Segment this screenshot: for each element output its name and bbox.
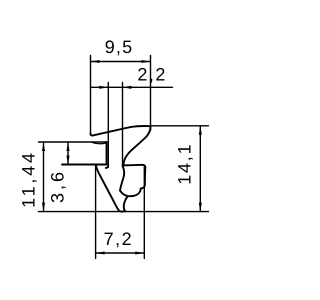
svg-text:2,2: 2,2	[137, 65, 167, 85]
wire ext right 2,2 / stem right	[122, 83, 124, 167]
arrow 11,44 bottom	[42, 203, 45, 212]
profile top edge with beak	[91, 126, 151, 136]
wire bottom shared ext	[39, 211, 209, 213]
svg-text:11,44: 11,44	[19, 150, 39, 208]
arrows	[42, 60, 202, 255]
svg-text:9,5: 9,5	[105, 37, 134, 57]
arrow 9,5 left	[91, 60, 100, 63]
arrow 14,1 top	[199, 126, 202, 135]
profile barb cross stroke	[120, 188, 141, 196]
profile right block edge	[141, 168, 146, 189]
profile blade left diagonal	[96, 165, 119, 211]
profile flange right+bottom	[62, 142, 107, 165]
wire dim 3,6 line	[67, 142, 69, 165]
arrow 9,5 right	[142, 60, 151, 63]
profile notch top	[123, 165, 145, 168]
profile blade right edge	[120, 166, 124, 190]
wire ext top 14,1	[151, 125, 209, 127]
wire ext left 9,5	[90, 56, 92, 136]
wire dim 11,44 line	[43, 142, 45, 212]
wire dim 9,5 line	[91, 61, 151, 63]
arrow 2,2 left outside	[99, 86, 108, 89]
arrow 11,44 top	[42, 142, 45, 151]
profile barb lower leg	[124, 197, 128, 212]
arrow 3,6 top	[66, 142, 69, 151]
arrow 14,1 bottom	[199, 203, 202, 212]
svg-text:14,1: 14,1	[175, 143, 195, 185]
arrow 7,2 left	[96, 251, 105, 254]
wire ext left 2,2 / stem left	[107, 83, 109, 168]
profile flange top sag	[92, 142, 106, 143]
wire dim 14,1 line	[199, 126, 201, 212]
wire dim 7,2 line	[96, 252, 145, 254]
arrow 7,2 right	[135, 251, 144, 254]
svg-text:7,2: 7,2	[104, 229, 134, 249]
profile foot tip	[119, 210, 124, 213]
profile slot bottom curl	[106, 166, 109, 169]
wire ext top 11,44 / flange top	[39, 141, 107, 143]
wire dim 2,2 line	[91, 86, 173, 88]
wire ext left 7,2	[95, 166, 97, 259]
svg-text:3,6: 3,6	[48, 169, 68, 203]
wire ext right 7,2	[143, 167, 145, 259]
arrow 3,6 bottom	[66, 156, 69, 165]
wire ext right 9,5	[150, 56, 152, 131]
profile right fillet arc	[123, 126, 150, 165]
arrow 2,2 right outside	[123, 86, 132, 89]
profile outline	[62, 126, 150, 212]
